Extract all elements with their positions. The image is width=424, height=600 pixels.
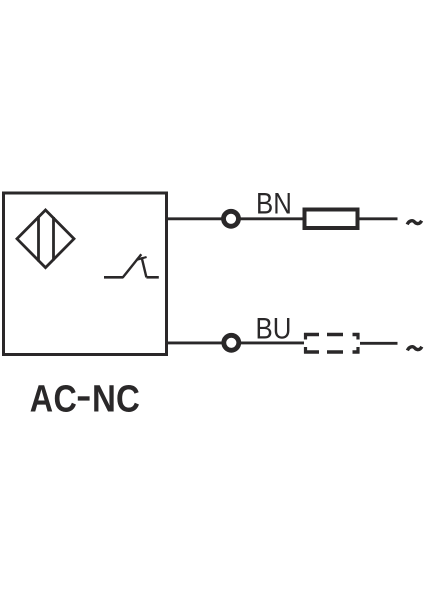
svg-text:BU: BU bbox=[256, 312, 292, 345]
wire: box to BN terminal bbox=[165, 217, 222, 220]
proximity sensor symbol: diamond outline bbox=[17, 210, 74, 268]
proximity sensor symbol: right vertical chord bbox=[52, 217, 55, 261]
svg-text:NC: NC bbox=[92, 377, 140, 420]
proximity sensor symbol: left vertical chord bbox=[37, 216, 40, 262]
wire: BN terminal to load bbox=[240, 217, 303, 220]
NC switch contact: right lead bbox=[146, 276, 158, 279]
optional load (dashed rectangle) left edge bbox=[304, 333, 307, 354]
load resistor (solid rectangle) bbox=[305, 210, 358, 229]
terminal circle BU bbox=[224, 335, 239, 350]
NC switch contact: left lead bbox=[104, 276, 123, 279]
optional load (dashed rectangle) right edge bbox=[356, 333, 359, 354]
caption hyphen bbox=[78, 396, 90, 400]
AC source tilde (bottom) bbox=[407, 347, 421, 351]
wire: load to AC source (top) bbox=[360, 217, 398, 220]
NC switch contact: moving arm (diagonal) bbox=[123, 254, 142, 277]
optional load (dashed rectangle) bottom edge bbox=[304, 350, 360, 353]
NC switch contact: right descender bbox=[142, 257, 147, 277]
wire: BU terminal to dashed load bbox=[241, 341, 305, 344]
wire: box to BU terminal bbox=[165, 341, 222, 344]
terminal circle BN bbox=[224, 211, 239, 226]
svg-text:AC: AC bbox=[30, 378, 77, 420]
AC source tilde (top) bbox=[407, 221, 421, 225]
NC switch contact: top stop bar bbox=[136, 257, 146, 260]
optional load (dashed rectangle) top edge bbox=[304, 333, 360, 336]
sensor body outline (rectangle) bbox=[4, 193, 167, 355]
svg-text:BN: BN bbox=[256, 187, 292, 220]
wire: dashed load to AC source (bottom) bbox=[360, 342, 398, 345]
